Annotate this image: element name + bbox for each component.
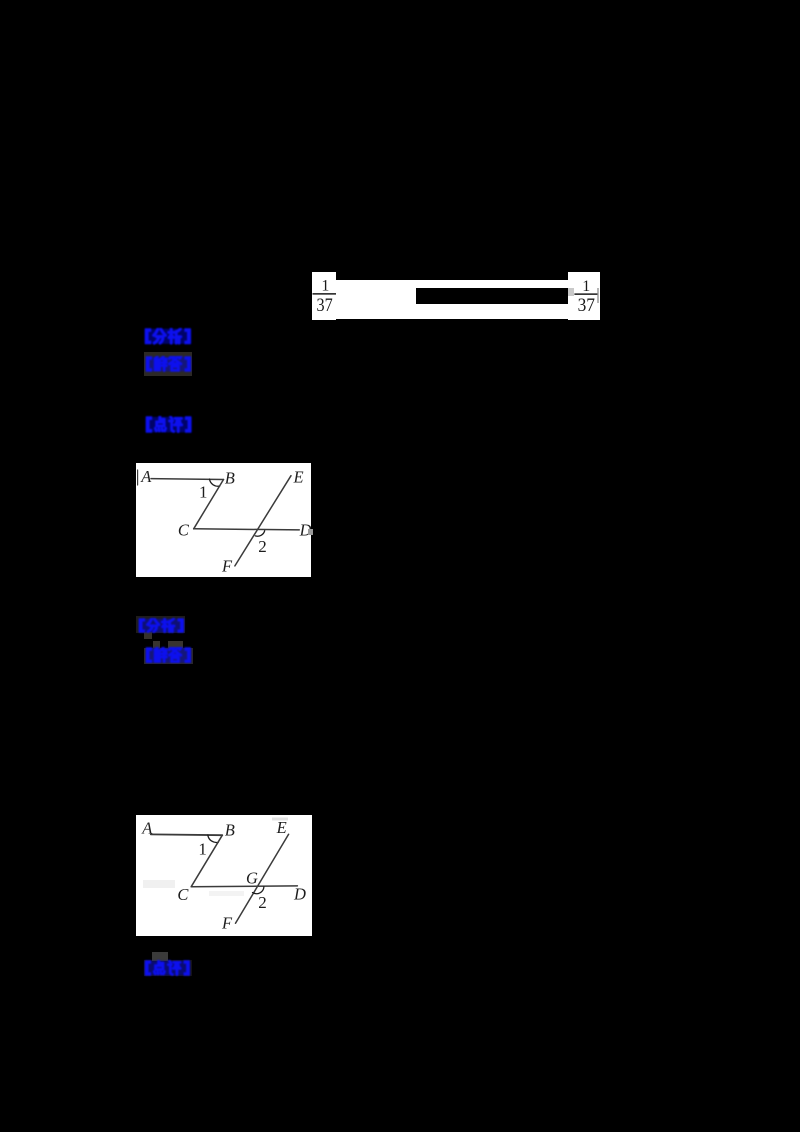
svg-text:E: E: [276, 818, 287, 837]
svg-text:B: B: [225, 468, 235, 487]
line AB: [151, 478, 224, 481]
blue label 4 fenxi: [138, 618, 185, 633]
svg-text:F: F: [221, 556, 233, 575]
fraction left white column: [312, 272, 336, 320]
angle 1 arc at B: [208, 835, 219, 842]
angle 2 arc at crossing: [255, 531, 264, 537]
svg-text:1: 1: [198, 839, 207, 858]
angle 2 arc at crossing G: [253, 887, 264, 894]
svg-text:37: 37: [316, 295, 332, 316]
blue label 6 dianping: [144, 960, 191, 976]
svg-text:1: 1: [199, 483, 208, 502]
gray block above label 6: [152, 952, 168, 961]
svg-text:2: 2: [258, 537, 267, 556]
faint highlight behind label 4: [136, 616, 185, 633]
blue label 3 dianping: [145, 416, 193, 433]
left edge tick: [137, 470, 139, 485]
line FE transversal: [236, 834, 289, 923]
gray tick right edge of right fraction: [597, 288, 599, 303]
diagram 1 white box: [136, 463, 311, 577]
angle 1 arc at B: [210, 479, 220, 486]
svg-text:B: B: [225, 821, 235, 840]
smudge left of C: [143, 880, 175, 888]
svg-text:1: 1: [582, 278, 590, 295]
fraction 1/37 right: [572, 272, 600, 320]
highlight behind label 5: [144, 648, 193, 664]
svg-text:C: C: [178, 520, 190, 539]
fraction 1/37 left: [312, 272, 338, 320]
line CD: [194, 529, 300, 530]
black redaction bar: [416, 288, 569, 304]
svg-text:G: G: [246, 869, 258, 888]
blue label 2 jieda: [145, 356, 192, 372]
gray block above label 5 right: [168, 641, 183, 648]
line CD: [191, 885, 297, 888]
line AB: [151, 833, 223, 836]
line BC: [194, 480, 224, 529]
svg-text:F: F: [221, 914, 233, 933]
svg-text:D: D: [293, 885, 306, 904]
blue label 5 jieda: [145, 647, 192, 664]
fraction right white column: [568, 272, 600, 320]
diagram 2 white box: [136, 815, 312, 936]
blue label 1 fenxi: [144, 328, 192, 345]
svg-text:1: 1: [321, 278, 329, 295]
svg-text:C: C: [177, 885, 189, 904]
line BC: [191, 835, 222, 887]
svg-text:37: 37: [578, 295, 595, 316]
gray handle right of D: [308, 529, 313, 535]
gray block above label 5 left: [153, 641, 161, 649]
faint highlight behind label 6: [144, 960, 192, 977]
gray square left of right fraction: [568, 288, 574, 296]
gray tail below label 4: [144, 632, 152, 639]
smudge right of C: [209, 891, 244, 896]
highlight behind label 2: [144, 352, 192, 377]
svg-text:2: 2: [258, 893, 267, 912]
svg-text:E: E: [293, 468, 304, 487]
svg-text:A: A: [140, 467, 152, 486]
line FE transversal: [235, 476, 291, 566]
fraction strip white background: [312, 280, 600, 320]
smudge above E: [272, 818, 288, 821]
